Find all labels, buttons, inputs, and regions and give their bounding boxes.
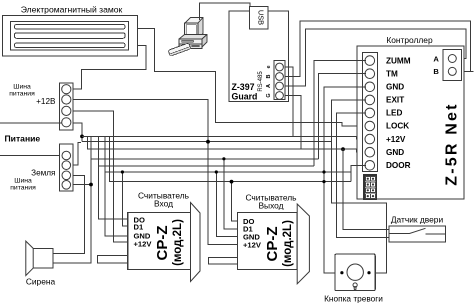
wire GND strip pin3 to siren <box>53 175 85 253</box>
svg-text:Электромагнитный замок: Электромагнитный замок <box>21 5 123 15</box>
svg-text:LOCK: LOCK <box>386 122 409 131</box>
wire reader output D1 drop from bus4 <box>224 159 238 229</box>
converter Z-397 Guard box <box>229 11 288 102</box>
svg-text:Датчик двери: Датчик двери <box>391 214 444 224</box>
svg-text:e: e <box>266 65 272 68</box>
wire reader input D1 drop from bus6 <box>122 172 127 226</box>
svg-text:EXIT: EXIT <box>386 96 404 105</box>
wire B stub to image edge <box>471 70 474 72</box>
+12V power terminal strip <box>60 83 74 130</box>
wire bus2 +12V rail <box>82 141 331 143</box>
junction dot bus7 output DO drop <box>230 180 234 184</box>
junction dot bus6 output GND drop <box>215 170 218 173</box>
wire bus6 elbow and reader GND drop <box>105 136 128 235</box>
wire bus5 elbow and reader DO drop <box>99 136 128 219</box>
junction dot GND strip pin4 <box>89 183 93 187</box>
wire TM to bus4 <box>319 74 366 159</box>
svg-text:Вход: Вход <box>154 199 173 209</box>
svg-text:CP-Z: CP-Z <box>264 227 281 262</box>
wire PSU plus to strip pin4 <box>0 122 62 124</box>
node junction dot1 <box>80 135 84 139</box>
wire Z-397 B to controller B <box>285 21 471 77</box>
USB connector box <box>250 7 269 30</box>
svg-text:RS-485: RS-485 <box>258 71 264 92</box>
svg-text:ZUMM: ZUMM <box>386 56 411 65</box>
junction dot GND wire bus6 <box>322 170 325 173</box>
svg-text:GND: GND <box>386 83 404 92</box>
wire GND to alarm button left <box>324 87 366 273</box>
wire bus1 GND rail to +12V pin <box>82 136 367 139</box>
reader output CP-Z box <box>238 204 310 284</box>
svg-text:A: A <box>433 54 439 63</box>
svg-text:Земля: Земля <box>31 169 55 178</box>
wire door sensor upper from bus3 <box>343 149 389 229</box>
svg-text:LED: LED <box>386 109 402 118</box>
wire Z-397 shield pin to GND bus1 <box>285 67 293 136</box>
svg-text:Питание: Питание <box>5 134 41 144</box>
svg-text:Сирена: Сирена <box>26 277 56 287</box>
wire strip pin4 down to node <box>73 123 82 142</box>
svg-text:+12V: +12V <box>134 240 153 249</box>
svg-text:B: B <box>266 74 272 78</box>
controller terminal strip <box>363 53 378 172</box>
wire bus4 elbow and siren branch <box>53 136 91 263</box>
controller pin labels <box>386 56 411 170</box>
svg-text:Контроллер: Контроллер <box>386 35 433 45</box>
wire bus7 elbow <box>110 136 351 181</box>
svg-text:Z-397: Z-397 <box>232 82 255 92</box>
svg-text:+12V: +12V <box>243 240 262 249</box>
svg-text:питания: питания <box>9 91 35 98</box>
svg-text:Guard: Guard <box>232 92 258 102</box>
wire loop on reader input <box>98 256 128 263</box>
svg-text:DOOR: DOOR <box>386 161 411 170</box>
svg-text:GND: GND <box>386 148 404 157</box>
wire GND strip pin4 stub <box>73 184 91 186</box>
svg-text:(мод.2L): (мод.2L) <box>282 220 294 267</box>
controller Z-5R Net box <box>357 46 464 199</box>
svg-text:Выход: Выход <box>258 201 283 211</box>
siren speaker <box>26 241 53 275</box>
computer <box>168 18 207 57</box>
wire PSU minus to GND strip pin1 <box>0 155 62 157</box>
svg-text:Кнопка тревоги: Кнопка тревоги <box>324 294 383 304</box>
svg-text:B: B <box>433 67 439 76</box>
alarm button <box>335 254 375 291</box>
controller jumper block <box>364 175 376 199</box>
wire +12V strip pin2 long bus and drop to reader output <box>73 100 238 245</box>
wire +12V strip pin3 to reader input <box>73 111 128 242</box>
wire computer to USB converter <box>200 3 251 20</box>
electromagnetic lock YM-type <box>3 16 138 57</box>
junction dot bus3 sensor branch <box>341 147 345 151</box>
Z-397 terminal block pins shield B A G <box>266 61 285 100</box>
svg-text:Шина: Шина <box>13 84 31 91</box>
svg-text:CP-Z: CP-Z <box>154 226 171 261</box>
wire ZUMM to bus5 <box>314 61 366 166</box>
wire loop on reader output <box>209 257 238 264</box>
wire Z-397 G to bus3 <box>285 96 301 150</box>
GND terminal strip <box>60 144 74 191</box>
wire bus3 elbow to GND2 pin <box>88 136 367 152</box>
svg-text:питания: питания <box>10 185 36 192</box>
svg-text:D1: D1 <box>134 223 144 232</box>
wire lock stub B to +12V bus pin1 <box>73 46 146 90</box>
door sensor reed switch <box>389 226 445 242</box>
svg-text:TM: TM <box>386 69 398 78</box>
wire reader output GND drop from bus6 <box>216 172 237 237</box>
reader input CP-Z box <box>128 203 200 282</box>
junction dot GND wire bus7 <box>322 180 325 183</box>
wire lock stub A to LOCK pin <box>138 29 366 127</box>
wire LED to door sensor lower <box>336 113 389 238</box>
svg-text:Шина: Шина <box>14 178 32 185</box>
wire jog to GND strip pin2 <box>73 142 81 165</box>
junction dot bus6 D1 branch <box>121 170 124 173</box>
controller A B terminal <box>433 49 461 80</box>
wire DOOR to bus7 <box>351 165 366 181</box>
junction dot bus4 output D1 drop <box>222 157 225 160</box>
junction dot bus2 +12V drop <box>206 140 210 144</box>
svg-text:Z-5R Net: Z-5R Net <box>443 102 460 185</box>
svg-text:(мод.2L): (мод.2L) <box>172 219 184 266</box>
svg-text:USB: USB <box>257 10 266 25</box>
wire Z-397 A to controller A <box>285 29 466 86</box>
wire EXIT to alarm button right <box>331 100 386 273</box>
svg-text:+12V: +12V <box>386 135 406 144</box>
svg-text:G: G <box>266 93 272 97</box>
svg-text:+12В: +12В <box>36 97 56 106</box>
wire reader output DO drop from bus7 <box>232 182 238 222</box>
svg-text:A: A <box>266 84 272 88</box>
